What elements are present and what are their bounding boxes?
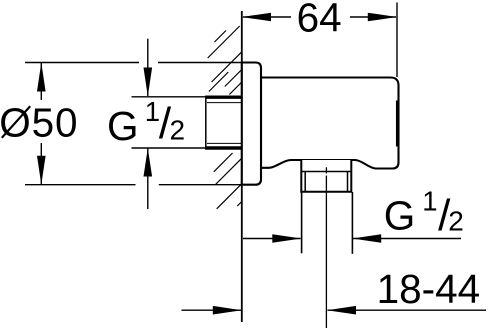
svg-text:G: G (107, 103, 139, 149)
svg-text:2: 2 (170, 114, 186, 145)
svg-text:2: 2 (448, 206, 464, 237)
svg-text:1: 1 (422, 186, 437, 217)
svg-text:1: 1 (145, 96, 160, 127)
svg-text:18-44: 18-44 (377, 266, 481, 312)
svg-text:G: G (384, 193, 416, 239)
svg-text:O50: O50 (0, 100, 78, 146)
svg-text:64: 64 (297, 0, 342, 41)
